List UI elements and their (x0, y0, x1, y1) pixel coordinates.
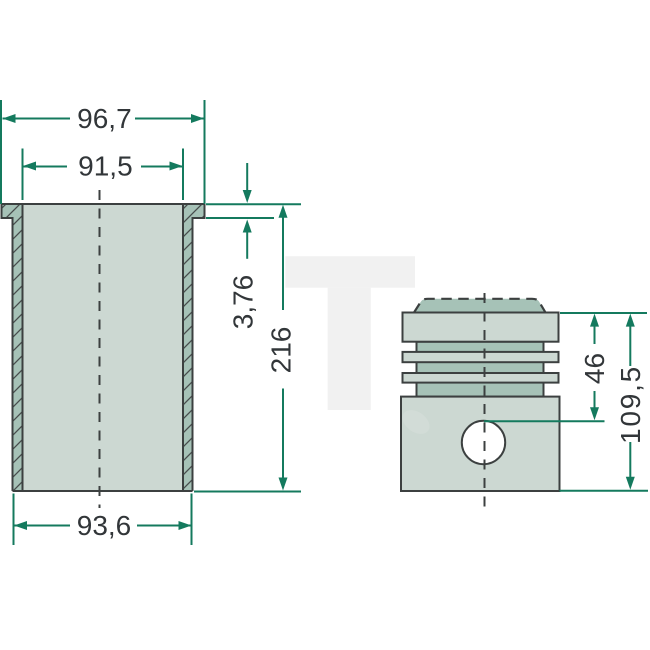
svg-text:91,5: 91,5 (78, 151, 133, 182)
svg-text:109,5: 109,5 (615, 365, 646, 444)
svg-text:96,7: 96,7 (77, 103, 132, 134)
svg-text:46: 46 (579, 353, 610, 384)
svg-text:216: 216 (266, 327, 297, 374)
svg-text:93,6: 93,6 (77, 510, 132, 541)
svg-text:3,76: 3,76 (228, 275, 259, 330)
